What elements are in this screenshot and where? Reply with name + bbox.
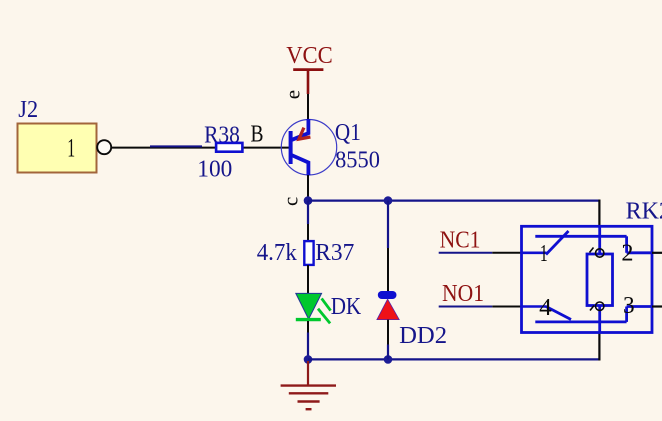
- svg-text:VCC: VCC: [286, 43, 333, 69]
- svg-text:R37: R37: [315, 240, 354, 266]
- relay pin 3 line: [627, 305, 652, 308]
- svg-text:100: 100: [197, 157, 232, 183]
- node ground junction dot: [304, 355, 313, 364]
- node DD2 top junction dot: [384, 196, 393, 205]
- wire R37 top lead (black): [307, 224, 309, 241]
- svg-text:Q1: Q1: [335, 120, 361, 146]
- relay NO throw line: [535, 320, 626, 323]
- relay pin 2 line: [627, 251, 652, 254]
- wire node to R37 (blue): [307, 201, 309, 224]
- resistor R38 body: [216, 143, 242, 152]
- ground bar 1: [281, 384, 336, 386]
- transistor Q1 emitter arrow (red): [299, 128, 311, 140]
- relay coil bottom lead: [598, 306, 601, 333]
- relay coil top lead: [598, 226, 601, 254]
- relay pin 4 line: [522, 305, 547, 308]
- svg-text:NC1: NC1: [440, 228, 481, 254]
- svg-text:J2: J2: [18, 97, 38, 123]
- svg-text:e: e: [281, 90, 305, 99]
- wire Q1 collector to node (black): [307, 175, 309, 201]
- wire DD2 cathode lead (black): [387, 248, 389, 292]
- wire node to DD2 (blue): [387, 201, 389, 248]
- transistor Q1 emitter: [291, 119, 308, 140]
- wire collector row (blue): [308, 200, 600, 202]
- relay RK2 box: [522, 226, 653, 332]
- resistor R37 body: [304, 241, 313, 265]
- power VCC stem: [307, 70, 310, 94]
- wire R37 bottom lead (black): [307, 265, 309, 294]
- svg-text:DD2: DD2: [399, 323, 447, 349]
- wire DD2 anode lead (black): [387, 320, 389, 345]
- diode DD2 cathode bar: [378, 291, 397, 299]
- power VCC bar: [293, 68, 323, 71]
- wire LED bottom lead (black): [307, 321, 309, 333]
- svg-text:8550: 8550: [335, 148, 380, 174]
- transistor Q1 base bar: [289, 131, 293, 164]
- transistor Q1 collector: [291, 155, 308, 176]
- wire relay coil bottom to row (black): [598, 333, 600, 361]
- relay coil top terminal circle: [596, 249, 604, 257]
- relay coil body: [587, 254, 613, 306]
- wire NC1 (blue): [439, 252, 493, 254]
- wire to relay coil top (black): [598, 200, 600, 227]
- ground bar 2: [289, 392, 329, 394]
- node DD2 bottom junction dot: [384, 355, 393, 364]
- diode DD2 triangle: [377, 299, 399, 320]
- svg-text:4: 4: [539, 295, 552, 321]
- svg-text:NO1: NO1: [442, 281, 484, 307]
- ground bar 4: [306, 408, 312, 410]
- wire NO1 pin lead (black): [492, 306, 521, 308]
- svg-text:c: c: [279, 197, 303, 206]
- relay pin 1 line: [522, 252, 547, 255]
- connector J2 pin circle: [97, 140, 111, 154]
- connector J2 body: [18, 124, 97, 173]
- wire VCC to Q1 emitter (black): [307, 94, 309, 120]
- relay NC throw line: [535, 235, 626, 238]
- wire DD2 to bottom row (blue): [387, 345, 389, 360]
- relay NO corner to pin 3: [625, 307, 628, 322]
- transistor Q1 circle: [281, 120, 336, 175]
- relay pin 4 switch arm: [546, 307, 571, 320]
- ground stem: [307, 361, 309, 386]
- wire relay pin 2 out (black): [652, 252, 662, 254]
- LED DK emission arrow 2: [318, 309, 330, 324]
- wire NC1 pin lead (black): [492, 252, 521, 254]
- wire relay pin 3 out (black): [652, 305, 662, 307]
- svg-text:2: 2: [621, 240, 633, 266]
- relay pin 1 switch arm: [546, 231, 569, 255]
- wire bottom row (blue): [308, 358, 600, 360]
- wire LED to ground row (blue): [307, 333, 309, 360]
- wire J2 pin to Q1 base (black): [112, 147, 289, 149]
- ground bar 3: [298, 400, 320, 402]
- wire overlay blue segment: [150, 145, 202, 147]
- LED DK triangle: [296, 293, 322, 319]
- relay NC corner to pin 2: [625, 236, 628, 253]
- relay coil bottom tick: [590, 306, 594, 311]
- svg-text:1: 1: [540, 241, 548, 267]
- svg-text:B: B: [251, 122, 264, 148]
- node collector junction dot: [304, 196, 313, 205]
- svg-text:DK: DK: [331, 294, 362, 320]
- LED DK emission arrow 1: [322, 298, 331, 310]
- svg-text:1: 1: [67, 134, 75, 163]
- LED DK cathode bar: [296, 318, 321, 321]
- svg-text:4.7k: 4.7k: [257, 240, 297, 266]
- svg-text:3: 3: [623, 293, 635, 319]
- relay coil bottom terminal circle: [596, 302, 604, 310]
- svg-text:RK2: RK2: [626, 199, 662, 225]
- wire NO1 (blue): [439, 306, 493, 308]
- relay coil top tick: [590, 248, 594, 253]
